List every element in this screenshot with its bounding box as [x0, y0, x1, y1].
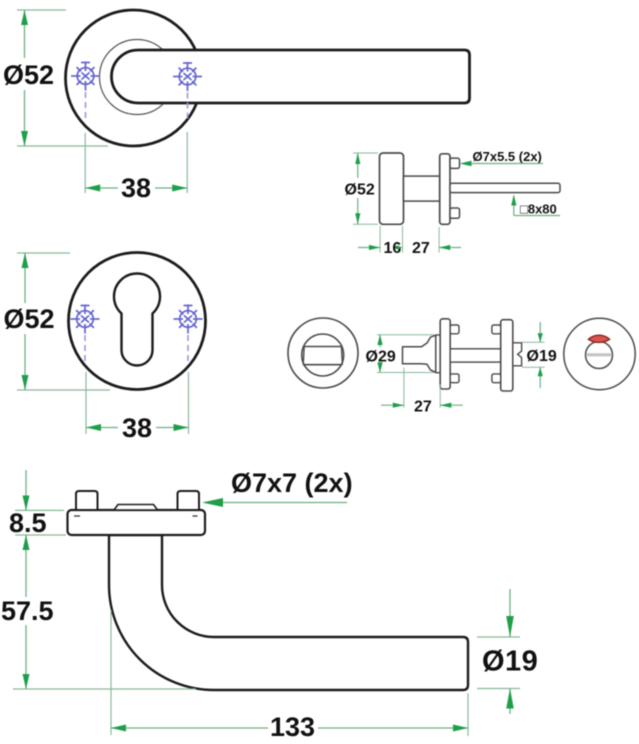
wc spindle — [450, 349, 501, 362]
wc plate 2 — [501, 320, 513, 391]
plate hub bump — [114, 505, 158, 511]
svg-text:Ø29: Ø29 — [366, 349, 396, 366]
leader Ø7x5.5 arrow — [460, 161, 472, 167]
wc turn slot bottom line — [303, 364, 342, 366]
screw position symbol left (view3) — [71, 305, 100, 334]
dim Ø29 extension bottom — [377, 372, 434, 374]
screw position symbol right (view3) — [174, 305, 203, 334]
dim 133 extension left — [110, 610, 112, 735]
wc thumb grip side — [403, 335, 436, 372]
dim Ø52 (view3) extension bottom — [17, 389, 110, 391]
rose plate side (bottom view) — [68, 510, 206, 535]
dim Ø29 line — [379, 335, 381, 347]
screw dashed axis left (view3) — [84, 335, 86, 361]
svg-text:27: 27 — [412, 240, 430, 257]
dim Ø52 (view1) extension line top — [17, 9, 66, 11]
dim 27 arrow — [439, 245, 450, 250]
dim Ø29 arrow down — [377, 362, 382, 372]
dim Ø19 (mid) line above — [539, 322, 541, 342]
dim Ø19 (mid) extension bottom — [522, 366, 545, 368]
euro profile keyhole — [114, 274, 160, 366]
dim 38 (view1) extension line left — [84, 133, 86, 193]
leader Ø7x5.5 line — [463, 163, 543, 165]
dim 27 (mid) arrow left — [393, 403, 404, 408]
dim Ø52 (view1) dimension line — [24, 10, 26, 58]
dim 38 (view3) arrow left — [86, 424, 101, 431]
dim Ø52 (view3) arrow down — [22, 375, 29, 390]
dim Ø19 (bottom) arrow up — [506, 689, 514, 709]
dim Ø52 (view3) dimension line — [24, 253, 26, 303]
dim Ø52 (view1) arrow up — [21, 10, 28, 25]
wc plate1 screw bottom — [450, 374, 459, 383]
dim Ø52 (view3) arrow up — [22, 253, 29, 268]
screw dashed axis right (view3) — [187, 335, 189, 361]
wc indicator red band — [588, 335, 609, 342]
svg-text:Ø19: Ø19 — [527, 348, 557, 365]
dim 133 dimension line — [111, 727, 268, 729]
plate screw boss left — [76, 491, 98, 510]
svg-text:27: 27 — [414, 399, 432, 416]
wc plate2 screw top — [492, 325, 501, 334]
dim Ø19 (bottom) extension top — [477, 636, 520, 638]
dim 27 (mid) arrow right — [440, 403, 451, 408]
dim 133 extension right — [467, 693, 469, 736]
wc indicator slot — [586, 353, 612, 356]
dim Ø19 (bottom) arrow down — [506, 616, 514, 637]
dim Ø52 (view2) arrow down — [355, 213, 360, 224]
dim 133 arrow left — [111, 725, 126, 732]
leader Ø7x7 line — [222, 502, 347, 504]
svg-text:38: 38 — [122, 413, 152, 443]
leader Ø7x7 arrow — [202, 498, 223, 507]
dim 38 (view3) arrow right — [174, 424, 189, 431]
dim 16 arrow — [369, 245, 380, 250]
dim 38 (view3) extension right — [188, 372, 190, 434]
svg-text:8.5: 8.5 — [9, 508, 47, 538]
dim Ø19 (mid) arrow up — [538, 367, 543, 376]
dim 16/27 extension line b — [402, 226, 404, 253]
svg-text:Ø7x7 (2x): Ø7x7 (2x) — [231, 468, 353, 498]
screw dashed axis right — [187, 93, 189, 121]
wc indicator rose front — [564, 318, 635, 389]
dim 8.5 line above — [25, 470, 27, 510]
dim Ø52 (view1) arrow down — [21, 131, 28, 146]
plate tick right — [193, 515, 198, 517]
dim 16 arrow b — [396, 245, 402, 249]
wc turn rose front — [288, 318, 358, 388]
svg-text:□8x80: □8x80 — [520, 202, 557, 217]
dim Ø19 (bottom) line above — [509, 589, 511, 637]
dim 57.5 extension bottom — [13, 688, 196, 690]
screw dashed axis left — [85, 92, 87, 121]
svg-text:Ø52: Ø52 — [4, 304, 55, 334]
wc turn slot top line — [304, 346, 342, 348]
wc release knob — [513, 343, 522, 366]
dim 38 (view1) extension line right — [186, 132, 188, 193]
svg-text:133: 133 — [270, 712, 315, 742]
fixing screw top — [450, 158, 460, 168]
screw position symbol right — [173, 62, 202, 91]
dim Ø52 (view1) extension line bottom — [17, 145, 108, 147]
dim Ø19 (mid) line below — [539, 367, 541, 388]
dim 8.5 arrow down — [23, 496, 30, 511]
dim 57.5 arrow down — [23, 674, 30, 689]
dim Ø52 (view2) extension top — [353, 152, 378, 154]
dim Ø19 (bottom) line below — [509, 689, 511, 715]
wc plate 1 — [440, 319, 450, 389]
rose outer circle — [66, 10, 202, 146]
dim 27 (mid) outside line right — [440, 404, 463, 406]
spindle bar — [450, 183, 560, 192]
wc turn slot left end — [303, 347, 304, 365]
plate tick left — [74, 515, 80, 517]
dim 38 (view1) arrow left — [85, 185, 100, 192]
dim 8.5 extension bottom — [15, 534, 66, 536]
dim Ø19 (mid) extension top — [522, 341, 545, 343]
lever bar — [112, 50, 470, 103]
svg-text:Ø7x5.5 (2x): Ø7x5.5 (2x) — [473, 149, 542, 164]
dim Ø29 extension top — [377, 334, 434, 336]
wc grip hub — [436, 335, 440, 373]
dim 27 (mid) outside line left — [381, 404, 404, 406]
dim Ø52 (view2) dimension line — [357, 153, 359, 178]
fixing screw bottom — [450, 208, 460, 218]
dim Ø52 (view2) extension bottom — [353, 223, 378, 225]
dim 16/27 extension line c — [438, 227, 440, 253]
dim 57.5 line lower — [25, 625, 27, 689]
dim Ø19 (mid) arrow down — [538, 333, 543, 342]
dim Ø19 (bottom) extension bottom — [477, 688, 520, 690]
mounting plate side — [440, 154, 450, 225]
dim 38 (view3) dimension line — [86, 427, 118, 429]
screw position symbol left — [71, 62, 100, 91]
dim 133 arrow right — [453, 725, 468, 732]
lever handle side profile — [109, 535, 468, 690]
wc turn slot right end — [341, 347, 342, 365]
dim 38 (view1) dimension line — [85, 187, 118, 189]
wc turn knob front — [302, 334, 344, 376]
dim 27 (mid) extension right — [439, 384, 441, 408]
dim 27 outside line right — [439, 247, 461, 249]
wc indicator knob — [586, 342, 613, 369]
svg-text:Ø52: Ø52 — [345, 182, 375, 199]
dim 16 outside line left — [358, 247, 380, 249]
dim 57.5 line upper — [25, 535, 27, 597]
leader square 8x80 underline — [514, 215, 560, 217]
dim 27 (mid) extension left — [403, 368, 405, 408]
wc plate2 screw bottom — [492, 374, 501, 383]
dim 38 (view3) extension left — [85, 372, 87, 434]
plate screw boss right — [178, 491, 200, 510]
rose side body — [380, 153, 404, 224]
dim 38 (view1) arrow right — [172, 185, 187, 192]
dim 8.5 extension top — [15, 509, 64, 511]
dim Ø29 arrow up — [377, 335, 382, 345]
svg-text:38: 38 — [121, 173, 151, 203]
leader square 8x80 riser — [513, 196, 515, 216]
svg-text:Ø52: Ø52 — [3, 60, 54, 90]
rose inner circle — [100, 40, 175, 115]
svg-text:Ø19: Ø19 — [482, 646, 538, 678]
dim 16/27 extension line a — [379, 226, 381, 253]
dim 57.5 arrow up — [23, 535, 30, 550]
rose neck — [404, 176, 440, 201]
leader square 8x80 arrow — [511, 195, 516, 206]
escutcheon circle — [69, 253, 206, 390]
svg-text:57.5: 57.5 — [1, 596, 54, 626]
dim Ø52 (view2) arrow up — [355, 153, 360, 164]
wc plate1 screw top — [450, 325, 459, 334]
dim Ø52 (view3) extension top — [17, 252, 70, 254]
